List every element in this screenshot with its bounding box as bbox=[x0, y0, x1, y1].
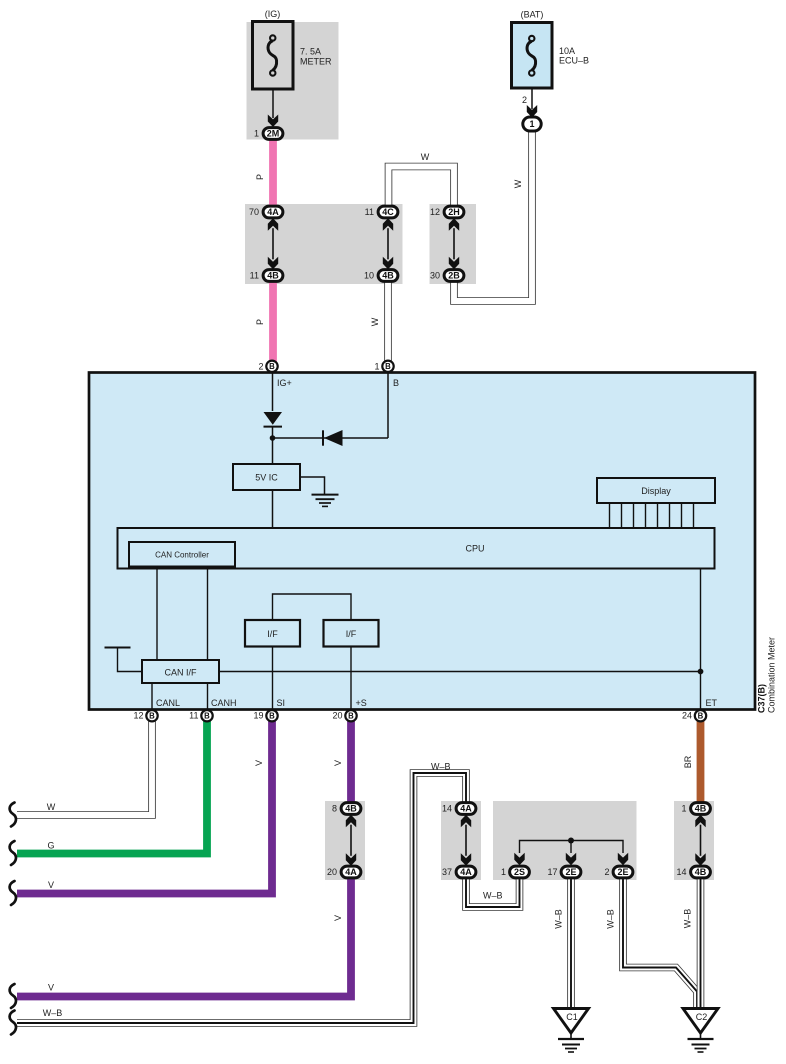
svg-text:2B: 2B bbox=[448, 271, 460, 281]
svg-text:B: B bbox=[393, 378, 399, 388]
svg-text:70: 70 bbox=[249, 207, 259, 217]
pin 12 B (CANL) bbox=[146, 710, 157, 721]
wire V from connector 20-4A to left break (violet) bbox=[17, 878, 351, 997]
svg-text:ECU–B: ECU–B bbox=[559, 56, 589, 66]
svg-text:2S: 2S bbox=[514, 867, 525, 877]
svg-text:(IG): (IG) bbox=[265, 9, 281, 19]
junction shading box (8-4B/20-4A connector) bbox=[325, 801, 365, 880]
svg-text:11: 11 bbox=[365, 207, 374, 217]
termination stub left of CAN I/F bbox=[118, 649, 143, 672]
svg-text:SI: SI bbox=[277, 698, 286, 708]
svg-text:7. 5A: 7. 5A bbox=[300, 47, 321, 57]
fuse 7.5A METER (IG) bbox=[253, 22, 294, 90]
svg-text:14: 14 bbox=[442, 804, 452, 814]
CAN I/F box bbox=[142, 660, 219, 683]
svg-text:B: B bbox=[385, 362, 391, 371]
svg-text:1: 1 bbox=[501, 867, 506, 877]
svg-text:B: B bbox=[204, 712, 210, 721]
connector pair 14-4A / 37-4A bbox=[456, 803, 476, 815]
svg-text:5V IC: 5V IC bbox=[255, 473, 278, 483]
connector pair 12-2H / 30-2B bbox=[444, 206, 464, 218]
svg-text:2H: 2H bbox=[448, 207, 460, 217]
svg-text:W–B: W–B bbox=[43, 1008, 63, 1018]
svg-text:BR: BR bbox=[683, 755, 693, 768]
svg-text:30: 30 bbox=[430, 271, 440, 281]
connector pair 70-4A / 11-4B bbox=[263, 206, 283, 218]
svg-text:CANL: CANL bbox=[156, 698, 180, 708]
pin 24 B (ET) bbox=[695, 710, 706, 721]
svg-text:W–B: W–B bbox=[431, 762, 451, 772]
wire CAN I/F to ET node bbox=[219, 671, 701, 673]
svg-text:B: B bbox=[348, 712, 354, 721]
node junction dot bbox=[270, 435, 276, 441]
svg-text:V: V bbox=[333, 915, 343, 921]
connector pair 11-4C / 10-4B bbox=[378, 206, 398, 218]
I/F box (+S) bbox=[324, 620, 379, 647]
wire break symbol (G) bbox=[10, 841, 16, 865]
svg-text:4B: 4B bbox=[695, 804, 707, 814]
Display to CPU bus lines bbox=[609, 503, 611, 528]
svg-text:4B: 4B bbox=[267, 271, 279, 281]
wire BR from pin ET 24 to connector 1-4B (brown) bbox=[697, 721, 705, 802]
junction shading box (2S/2E/2E junction) bbox=[493, 801, 637, 880]
svg-text:CAN Controller: CAN Controller bbox=[155, 551, 209, 560]
svg-text:2M: 2M bbox=[267, 129, 280, 139]
connector 1 2M bbox=[263, 128, 283, 140]
svg-text:14: 14 bbox=[676, 867, 686, 877]
wire V from pin +S 20 to connector 8-4B (violet) bbox=[347, 721, 355, 802]
wire CPU to pin ET bbox=[700, 569, 702, 710]
wires I/F boxes to pins SI and +S bbox=[272, 647, 274, 710]
svg-text:20: 20 bbox=[332, 711, 342, 721]
svg-text:P: P bbox=[255, 174, 265, 180]
diode D2 (pointing left toward node) bbox=[322, 430, 324, 445]
wire V from pin SI 19 to left break (violet) bbox=[17, 721, 272, 894]
svg-text:4C: 4C bbox=[382, 207, 394, 217]
junction shading box (14-4A/37-4A connector) bbox=[441, 801, 481, 880]
svg-text:2E: 2E bbox=[565, 867, 576, 877]
svg-text:2: 2 bbox=[258, 361, 263, 371]
wires CAN I/F to pins CANL/CANH bbox=[151, 683, 153, 710]
svg-text:10: 10 bbox=[364, 271, 374, 281]
svg-text:2: 2 bbox=[522, 95, 527, 105]
wire break symbol (W-B) bbox=[10, 1011, 16, 1035]
svg-text:+S: +S bbox=[356, 698, 367, 708]
pin 19 B (SI) bbox=[266, 710, 277, 721]
wire 5V IC to CPU bbox=[272, 490, 274, 528]
svg-text:4B: 4B bbox=[345, 804, 357, 814]
svg-text:I/F: I/F bbox=[346, 629, 357, 639]
junction shading box (4A/4B,4C/4B connectors) bbox=[245, 204, 403, 284]
svg-text:W–B: W–B bbox=[554, 909, 564, 929]
node dot at ET line bbox=[698, 669, 704, 675]
svg-text:24: 24 bbox=[682, 711, 692, 721]
svg-text:1: 1 bbox=[529, 119, 534, 129]
svg-text:W: W bbox=[370, 317, 380, 326]
svg-text:8: 8 bbox=[332, 804, 337, 814]
svg-text:B: B bbox=[269, 362, 275, 371]
wires CAN Controller to CAN I/F bbox=[156, 567, 158, 661]
wire break symbol (W) bbox=[10, 803, 16, 827]
wire W-B link from connector 37-4A to connector 1-2S (white-black) bbox=[466, 878, 520, 907]
svg-text:C37(B): C37(B) bbox=[757, 684, 767, 713]
svg-text:1: 1 bbox=[681, 804, 686, 814]
svg-text:C1: C1 bbox=[566, 1012, 578, 1022]
svg-text:Display: Display bbox=[641, 486, 671, 496]
svg-text:Combination Meter: Combination Meter bbox=[767, 637, 777, 713]
wire P from fuse 2M to connector 4A (pink) bbox=[269, 140, 277, 206]
wire W from BAT fuse connector 1 down and to connector 2B (white) bbox=[454, 130, 532, 301]
diode D1 (series, pointing down) bbox=[264, 412, 283, 425]
Display box bbox=[597, 478, 715, 503]
svg-text:11: 11 bbox=[250, 271, 259, 281]
svg-text:20: 20 bbox=[327, 867, 337, 877]
svg-text:2: 2 bbox=[604, 867, 609, 877]
ground C2 bbox=[683, 1009, 718, 1034]
junction shading box (2H/2B connector) bbox=[430, 204, 477, 284]
connector 2-2E bbox=[613, 866, 633, 878]
svg-text:17: 17 bbox=[547, 867, 557, 877]
internal ground of 5V IC bbox=[300, 477, 325, 494]
connector pair 8-4B / 20-4A bbox=[341, 803, 361, 815]
svg-text:V: V bbox=[254, 760, 264, 766]
svg-text:W: W bbox=[47, 802, 56, 812]
wire W from connector 4B to pin B (white) bbox=[384, 281, 392, 362]
svg-text:V: V bbox=[333, 760, 343, 766]
wire break symbol (V +S) bbox=[10, 984, 16, 1008]
connector 1-2S bbox=[510, 866, 530, 878]
wire G from pin CANH 11 to left break (green) bbox=[17, 721, 207, 854]
pin 20 B (+S) bbox=[345, 710, 356, 721]
svg-text:METER: METER bbox=[300, 57, 332, 67]
wire P from connector 4B to pin IG+ (pink) bbox=[269, 281, 277, 362]
svg-text:V: V bbox=[48, 983, 54, 993]
wire W from pin CANL 12 to left break (white) bbox=[17, 721, 152, 815]
junction shading box (IG fuse area) bbox=[247, 22, 339, 140]
junction bus in 2S/2E box bbox=[520, 841, 624, 854]
wire W-B loop from connector 14-4A to left break (white-black) bbox=[17, 773, 466, 1023]
svg-text:C2: C2 bbox=[696, 1012, 708, 1022]
svg-text:W: W bbox=[421, 152, 430, 162]
svg-text:V: V bbox=[48, 880, 54, 890]
wire from pin B down and across bbox=[387, 373, 389, 439]
5V IC regulator box bbox=[233, 464, 300, 490]
svg-text:12: 12 bbox=[430, 207, 440, 217]
wire W-B from connector 17-2E to ground C1 (white-black) bbox=[567, 878, 575, 1009]
pin 2 B (IG+) bbox=[266, 361, 277, 372]
svg-text:4A: 4A bbox=[460, 867, 472, 877]
svg-text:B: B bbox=[269, 712, 275, 721]
junction shading box (1-4B/14-4B connector) bbox=[674, 801, 714, 880]
wire from pin IG+ to diode bbox=[272, 373, 274, 412]
CAN Controller box bbox=[129, 542, 235, 567]
svg-text:12: 12 bbox=[133, 711, 143, 721]
svg-text:CPU: CPU bbox=[465, 544, 484, 554]
svg-text:4A: 4A bbox=[460, 804, 472, 814]
bridge wire joining I/F tops bbox=[273, 594, 352, 620]
svg-text:G: G bbox=[47, 841, 54, 851]
svg-text:CANH: CANH bbox=[211, 698, 237, 708]
node dot on junction bus bbox=[568, 838, 574, 844]
I/F box (SI) bbox=[245, 620, 300, 647]
svg-text:4B: 4B bbox=[382, 271, 394, 281]
svg-text:CAN I/F: CAN I/F bbox=[164, 668, 197, 678]
svg-text:W–B: W–B bbox=[606, 909, 616, 929]
svg-text:4A: 4A bbox=[345, 867, 357, 877]
connector 1 (BAT) bbox=[523, 117, 541, 131]
wire break symbol (V SI) bbox=[10, 881, 16, 905]
svg-text:IG+: IG+ bbox=[277, 378, 292, 388]
svg-text:11: 11 bbox=[189, 711, 198, 721]
ground C1 bbox=[554, 1009, 589, 1034]
svg-text:1: 1 bbox=[374, 361, 379, 371]
svg-text:2E: 2E bbox=[617, 867, 628, 877]
svg-text:37: 37 bbox=[442, 867, 452, 877]
svg-text:4A: 4A bbox=[267, 207, 279, 217]
svg-text:(BAT): (BAT) bbox=[521, 10, 544, 20]
svg-text:1: 1 bbox=[254, 129, 259, 139]
wire W-B from connector 14-4B to ground C2 (white-black) bbox=[697, 878, 705, 1009]
connector pair 1-4B / 14-4B bbox=[691, 803, 711, 815]
svg-text:10A: 10A bbox=[559, 46, 575, 56]
svg-text:B: B bbox=[698, 712, 704, 721]
svg-text:W–B: W–B bbox=[483, 891, 503, 901]
CPU box bbox=[118, 528, 715, 569]
svg-text:19: 19 bbox=[253, 711, 263, 721]
svg-text:W: W bbox=[513, 179, 523, 188]
svg-text:I/F: I/F bbox=[267, 629, 278, 639]
svg-text:4B: 4B bbox=[695, 867, 707, 877]
svg-text:P: P bbox=[255, 319, 265, 325]
svg-text:W–B: W–B bbox=[683, 909, 693, 929]
svg-text:B: B bbox=[149, 712, 155, 721]
fuse 10A ECU-B (BAT) bbox=[512, 23, 553, 89]
wire W-B from connector 2-2E to ground C2 (white-black) bbox=[623, 878, 697, 1009]
pin 1 B (B) bbox=[382, 361, 393, 372]
pin 11 B (CANH) bbox=[201, 710, 212, 721]
combination meter block C37(B) bbox=[89, 373, 755, 710]
svg-text:ET: ET bbox=[706, 698, 718, 708]
connector 17-2E bbox=[561, 866, 581, 878]
wire W from connector 4C over to connector 2H (white) bbox=[389, 167, 455, 208]
